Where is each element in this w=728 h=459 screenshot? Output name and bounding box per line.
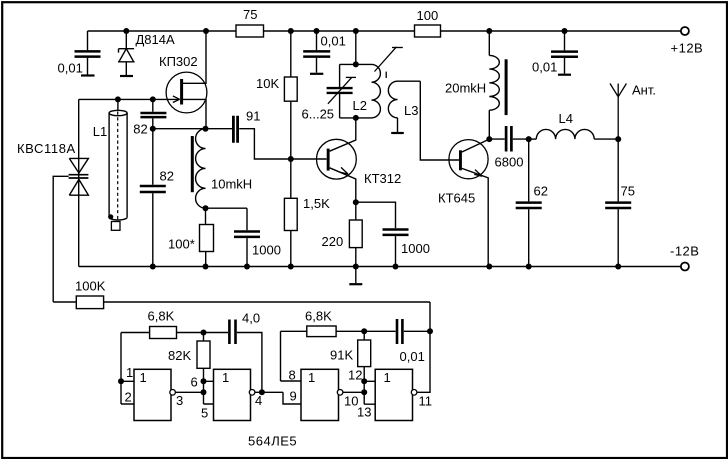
svg-text:1000: 1000	[401, 241, 430, 256]
svg-text:1000: 1000	[252, 243, 281, 258]
junction: Q2 emitter / R6 / C6	[353, 199, 359, 205]
capacitor C2 82 (upper divider)	[140, 99, 166, 128]
junction: node R10 / C14 / R11	[361, 328, 367, 334]
junction: +12V rail / L6 20mkH	[486, 28, 492, 34]
svg-text:L1: L1	[93, 124, 107, 139]
tank circuit top/bottom wires	[340, 64, 372, 118]
junction: L2 tank bottom / Q2 collector	[353, 115, 359, 121]
junction: L5 bottom / R3 / C4	[203, 205, 209, 211]
svg-text:220: 220	[322, 234, 344, 249]
junction: -12V rail / Q2 emitter net	[353, 264, 359, 270]
resistor R10 6,8K (osc2)	[281, 326, 365, 337]
svg-text:0,01: 0,01	[321, 34, 346, 49]
capacitor C14 0,01 (osc2 timing)	[364, 319, 430, 344]
resistor R8 6,8K (osc1)	[121, 327, 204, 339]
svg-text:10mkH: 10mkH	[211, 177, 252, 192]
20mkH core bar	[505, 59, 508, 115]
svg-text:8: 8	[289, 368, 296, 383]
wire emitter node to 1000 cap	[206, 207, 248, 209]
capacitor C3 82 (lower divider)	[140, 129, 166, 267]
ground bar under VD1	[120, 75, 133, 77]
capacitor C4 1000 (source bypass)	[234, 208, 260, 266]
junction: -12V rail / R3	[203, 264, 209, 270]
junction: gate bus / C2	[150, 96, 156, 102]
svg-text:20mkH: 20mkH	[445, 81, 486, 96]
junction: -12V rail / Q3 emitter	[486, 264, 492, 270]
antenna symbol	[610, 84, 626, 140]
svg-text:75: 75	[621, 184, 635, 199]
capacitor C1 0,01 (top-left bypass)	[75, 31, 101, 75]
wire L3 to Q3 base	[420, 81, 459, 160]
capacitor C9 6800 (coupling)	[489, 126, 528, 152]
svg-text:1: 1	[140, 370, 147, 385]
junction: +12V rail / C12	[562, 28, 568, 34]
svg-text:+12В: +12В	[671, 41, 704, 56]
svg-text:0,01: 0,01	[58, 61, 83, 76]
svg-text:0,01: 0,01	[400, 349, 425, 364]
resistor R7 100K	[76, 296, 103, 309]
JFET Q1 KP302	[166, 31, 207, 129]
svg-text:82K: 82K	[168, 348, 191, 363]
inductor L4 (output filter)	[529, 129, 619, 139]
svg-text:1: 1	[384, 370, 391, 385]
10mkH core bar	[191, 136, 194, 192]
svg-text:10K: 10K	[256, 76, 279, 91]
junction: +12V rail / VD1 D814A	[123, 28, 129, 34]
svg-text:L4: L4	[559, 111, 573, 126]
inductor L5 10mkH	[196, 129, 206, 209]
wire gate4 input feed	[364, 381, 375, 404]
svg-text:13: 13	[357, 405, 371, 420]
wire divider tap to source node	[153, 128, 232, 130]
gate U1.3 (564LE5)	[301, 369, 364, 420]
ground bar under C1	[81, 74, 95, 76]
wire varicap tap	[53, 176, 68, 302]
resistor R1 75 (top rail)	[236, 25, 264, 37]
capacitor C5 91 (coupling)	[233, 116, 326, 159]
wire modulation feed (long horizontal)	[53, 301, 430, 303]
svg-text:6: 6	[191, 375, 198, 390]
junction: U1.3 output pin 10 net	[361, 389, 367, 395]
svg-text:6,8K: 6,8K	[148, 309, 175, 324]
wire gate2 input feed	[204, 381, 214, 404]
junction: U1.1 output pin 3 net	[201, 389, 207, 395]
wire gate1 input feed	[121, 333, 134, 405]
svg-text:6...25: 6...25	[302, 107, 335, 122]
svg-text:1: 1	[126, 365, 133, 380]
svg-text:-12В: -12В	[670, 244, 699, 259]
junction: +12V rail / Q1 drain	[203, 28, 209, 34]
junction: U1.4 pin 12 / R11	[361, 378, 367, 384]
capacitor C10 62	[516, 139, 542, 266]
svg-text:5: 5	[201, 406, 208, 421]
junction: L4 / antenna / C11	[615, 136, 621, 142]
junction: +12V rail / R4 10K	[288, 28, 294, 34]
Q2 emitter arrow	[340, 167, 348, 174]
svg-text:1: 1	[222, 370, 229, 385]
svg-text:Д814А: Д814А	[136, 32, 175, 47]
resistor R4 10K	[284, 31, 297, 159]
Q3 emitter arrow	[474, 170, 482, 177]
svg-text:3: 3	[176, 393, 183, 408]
inductor L6 20mkH	[489, 31, 499, 139]
svg-text:91K: 91K	[330, 348, 353, 363]
junction: U1.2 output pin 4 net	[259, 389, 265, 395]
junction: node R8 / C13 / R9	[201, 330, 207, 336]
junction: -12V rail / C4	[244, 264, 250, 270]
svg-text:82: 82	[160, 169, 174, 184]
junction: -12V rail / R5	[288, 264, 294, 270]
svg-text:2: 2	[125, 390, 132, 405]
wire top rail segment A	[88, 30, 237, 32]
capacitor C13 4,0	[204, 320, 262, 393]
svg-text:КП302: КП302	[159, 54, 198, 69]
capacitor C7 0,01 (mid bypass)	[303, 31, 330, 73]
trimmer capacitor C8 6...25	[327, 64, 356, 118]
ground bar under C7	[310, 73, 323, 75]
junction: -12V rail / C11	[615, 264, 621, 270]
wire top rail segment C	[441, 30, 682, 32]
junction: +12V rail / L2 tank feed	[353, 28, 359, 34]
capacitor C12 0,01 (supply bypass right)	[551, 31, 578, 74]
terminal +12V	[681, 27, 689, 35]
inductor L3 (coupling coil)	[388, 81, 420, 132]
junction: -12V rail / C10	[526, 264, 532, 270]
resistor R6 220	[349, 202, 362, 266]
junction: C9 / L4 / C10	[526, 136, 532, 142]
junction: -12V rail / C3	[150, 264, 156, 270]
svg-text:82: 82	[133, 122, 147, 137]
svg-text:100: 100	[417, 8, 439, 23]
wire gate3 pin8 feed	[281, 331, 302, 381]
gate U1.1 (564LE5)	[134, 369, 204, 420]
svg-text:91: 91	[246, 109, 260, 124]
junction: L2 tank top	[353, 61, 359, 67]
varicap VD2 KVS118A	[69, 99, 89, 266]
L2 adjustable core arrow	[375, 47, 403, 78]
svg-text:62: 62	[534, 184, 548, 199]
junction: divider tap / C2-C3	[150, 126, 156, 132]
svg-text:1,5K: 1,5K	[303, 196, 330, 211]
inductor L2 (tank coil)	[372, 64, 381, 117]
junction: gate bus / L1 top	[115, 96, 121, 102]
junction: +12V rail / C7	[314, 28, 320, 34]
transistor Q2 KT312	[317, 118, 357, 202]
svg-text:100K: 100K	[75, 279, 106, 294]
svg-text:6800: 6800	[495, 155, 524, 170]
junction: Q2 base node	[288, 156, 294, 162]
junction: U1.2 pin 6 / R9	[201, 378, 207, 384]
capacitor C11 75	[605, 139, 631, 266]
wire top rail segment B	[264, 30, 415, 32]
resistor R5 1,5K	[284, 159, 297, 267]
svg-text:11: 11	[419, 394, 433, 409]
svg-text:564ЛЕ5: 564ЛЕ5	[248, 434, 297, 449]
gate U1.4 (564LE5)	[375, 302, 430, 421]
zener diode VD1 D814A	[118, 31, 135, 75]
wire bottom rail	[79, 266, 682, 268]
inductor L1 (cylinder form)	[109, 99, 127, 230]
JFET gate arrow	[173, 96, 180, 103]
capacitor C6 1000 (emitter bypass)	[356, 202, 409, 266]
junction: -12V rail / C6	[393, 264, 399, 270]
gate U1.2 (564LE5)	[214, 369, 284, 420]
svg-text:100*: 100*	[168, 237, 195, 252]
junction: Q3 collector / L6 / C9	[486, 136, 492, 142]
svg-text:КВС118А: КВС118А	[17, 141, 76, 156]
ground symbol (emitter net)	[355, 267, 357, 284]
resistor R3 100*	[200, 208, 214, 266]
svg-text:Ант.: Ант.	[632, 83, 656, 98]
svg-text:4: 4	[255, 393, 262, 408]
svg-text:L2: L2	[353, 98, 367, 113]
svg-text:4,0: 4,0	[242, 311, 260, 326]
wire L2 tank feed	[355, 31, 357, 64]
resistor R11 91K	[358, 331, 371, 381]
wire pin9 jog	[283, 392, 301, 404]
svg-text:0,01: 0,01	[532, 60, 557, 75]
svg-text:L3: L3	[404, 103, 418, 118]
transistor Q3 KT645	[449, 139, 489, 266]
svg-text:6,8K: 6,8K	[305, 309, 332, 324]
svg-text:КТ312: КТ312	[364, 171, 401, 186]
wire gate bus (left horizontal at y99.4)	[79, 98, 180, 100]
junction: U1.4 output pin 11 net	[427, 328, 433, 334]
svg-text:12: 12	[348, 368, 362, 383]
svg-text:КТ645: КТ645	[438, 191, 475, 206]
resistor R2 100 (top rail)	[415, 25, 441, 37]
resistor R9 82K	[197, 333, 210, 382]
ground bar under L3	[391, 132, 404, 134]
ground bar under C12	[558, 74, 571, 76]
svg-text:9: 9	[290, 389, 297, 404]
junction: Q1 source node	[203, 126, 209, 132]
terminal -12V	[681, 263, 689, 271]
L1 winding-end dot	[108, 214, 113, 219]
svg-text:75: 75	[243, 7, 257, 22]
svg-text:1: 1	[308, 370, 315, 385]
junction: U1.1 input pins 1-2	[118, 378, 124, 384]
